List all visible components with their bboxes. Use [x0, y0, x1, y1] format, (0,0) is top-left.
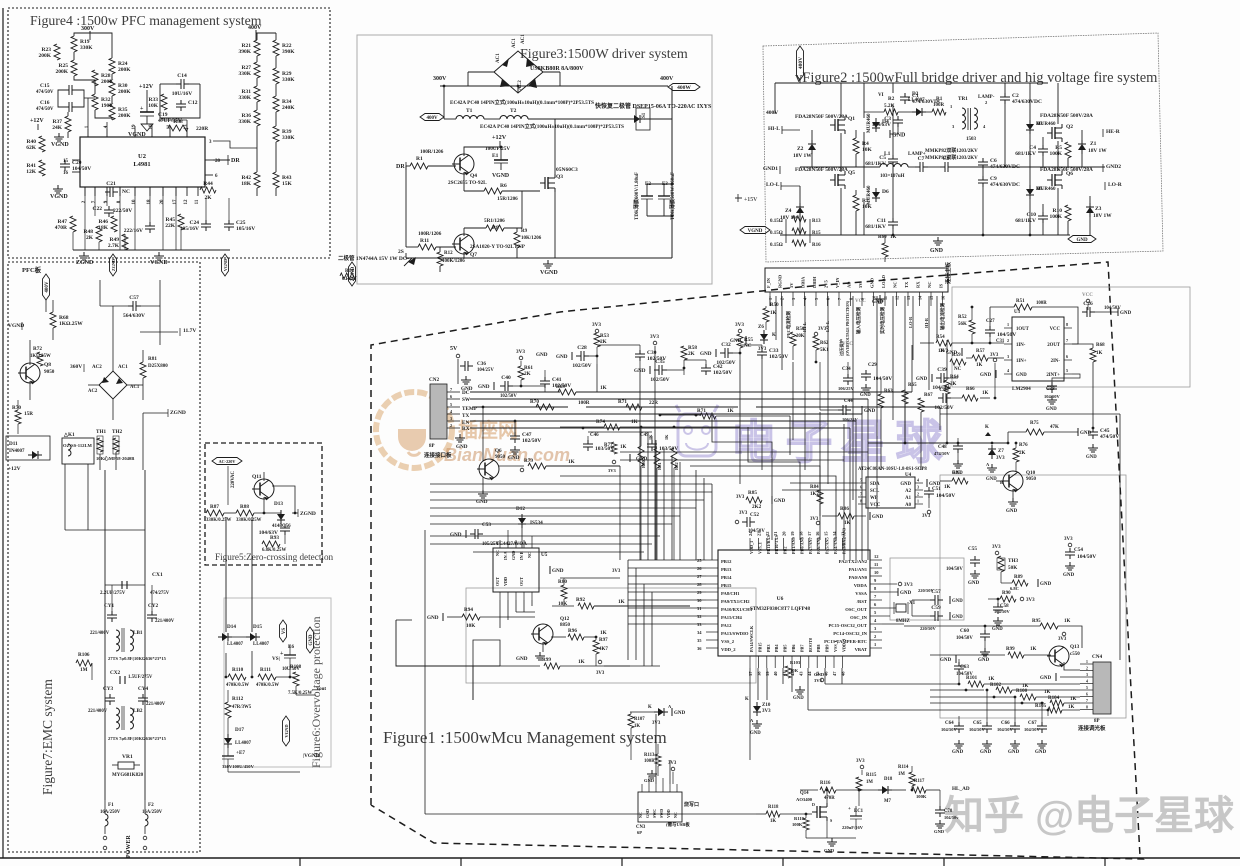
wire link verticals — [225, 517, 227, 632]
diode D5 — [1029, 185, 1031, 189]
Figure6 boundary box — [224, 598, 331, 767]
bottom ruler tick 2 — [460, 858, 462, 866]
svg-text:18V 1W: 18V 1W — [793, 153, 812, 159]
svg-text:LB2: LB2 — [133, 708, 143, 714]
svg-text:LL4007: LL4007 — [227, 642, 244, 647]
zener Z3 — [1089, 203, 1091, 207]
svg-text:18V 1W: 18V 1W — [1093, 213, 1112, 219]
svg-text:3: 3 — [917, 485, 919, 490]
svg-text:VDDA: VDDA — [854, 583, 868, 588]
wire bottom rail fig2 — [780, 234, 1070, 236]
net 3V3 vdda — [898, 582, 902, 586]
svg-text:5: 5 — [1066, 368, 1068, 373]
svg-text:24K: 24K — [52, 125, 63, 131]
svg-text:R57: R57 — [976, 349, 985, 354]
svg-text:28: 28 — [697, 582, 702, 587]
group box opamp — [952, 287, 1190, 387]
svg-text:VGND: VGND — [223, 259, 228, 271]
op-amp U2 L4981 box — [80, 137, 205, 187]
Figure2 boundary box — [763, 33, 1163, 262]
wire to fig1 a — [140, 331, 178, 333]
bus u6 col down — [659, 430, 661, 560]
svg-text:GND: GND — [916, 377, 928, 382]
svg-text:PA1/AN1: PA1/AN1 — [849, 567, 868, 572]
svg-text:PB2: PB2 — [783, 547, 788, 554]
svg-text:1K2: 1K2 — [810, 492, 819, 497]
svg-text:MUR460: MUR460 — [867, 185, 872, 205]
svg-text:DBIH: DBIH — [812, 276, 817, 288]
capacitor C1 — [904, 93, 906, 97]
svg-text:330K/0.25W: 330K/0.25W — [236, 518, 262, 523]
resistor R73 — [695, 414, 698, 417]
transistor Q6 — [482, 407, 484, 461]
svg-text:681/1KV: 681/1KV — [1015, 218, 1036, 224]
svg-text:R76: R76 — [1019, 443, 1028, 448]
capacitor C14 — [176, 83, 181, 85]
svg-text:Q14: Q14 — [800, 791, 809, 796]
resistor R49 — [122, 234, 128, 250]
svg-text:Z10: Z10 — [762, 703, 771, 708]
svg-text:TR1: TR1 — [958, 96, 968, 102]
resistor R37 — [65, 116, 71, 132]
svg-text:18: 18 — [147, 199, 152, 205]
svg-text:Z6: Z6 — [758, 325, 764, 330]
svg-text:8P: 8P — [1094, 719, 1100, 724]
svg-text:10K心MF58-2040B: 10K心MF58-2040B — [96, 455, 134, 462]
svg-text:22: 22 — [765, 531, 770, 536]
capacitor C8 — [940, 166, 945, 168]
svg-text:10K/1206: 10K/1206 — [521, 236, 542, 241]
svg-text:GND: GND — [864, 409, 876, 414]
svg-text:PB12: PB12 — [721, 559, 732, 564]
capacitor C11 — [892, 218, 894, 222]
svg-text:13: 13 — [906, 296, 911, 300]
resistor R82v — [671, 448, 677, 468]
svg-text:R52: R52 — [958, 315, 967, 320]
svg-text:220uF/16V: 220uF/16V — [842, 825, 864, 830]
wire U4 sda scl — [790, 482, 858, 484]
svg-text:VGND: VGND — [492, 173, 509, 179]
svg-text:GND: GND — [636, 457, 648, 462]
svg-text:330K: 330K — [282, 135, 295, 141]
svg-text:GND: GND — [1006, 509, 1018, 514]
svg-text:CY1: CY1 — [104, 603, 114, 609]
choke LB2 — [116, 708, 120, 729]
svg-text:1K: 1K — [1096, 351, 1103, 356]
wire u5-left L — [396, 620, 500, 666]
svg-text:7: 7 — [1086, 699, 1088, 703]
svg-text:D18: D18 — [884, 777, 893, 782]
svg-text:RX: RX — [462, 426, 470, 432]
svg-text:R102: R102 — [990, 683, 1002, 688]
svg-text:1K: 1K — [988, 677, 995, 682]
svg-text:1K: 1K — [664, 434, 669, 440]
svg-text:470R: 470R — [55, 225, 68, 231]
capacitor C9 — [982, 176, 984, 180]
svg-text:AC1: AC1 — [512, 38, 517, 48]
resistor R30 — [109, 80, 115, 96]
svg-text:R87: R87 — [210, 504, 219, 510]
svg-text:2: 2 — [1086, 667, 1088, 671]
svg-text:GND: GND — [934, 829, 945, 834]
svg-text:R71: R71 — [618, 399, 627, 405]
svg-text:AC2: AC2 — [88, 389, 98, 394]
transistor Q7 — [454, 234, 474, 254]
svg-text:C43: C43 — [939, 387, 949, 393]
svg-text:R13: R13 — [812, 219, 821, 224]
capacitor C-fig5 — [284, 524, 286, 528]
svg-text:R59: R59 — [952, 353, 961, 358]
svg-text:1K: 1K — [600, 630, 607, 636]
svg-text:MMKP82双联1203/2KV: MMKP82双联1203/2KV — [925, 154, 978, 161]
svg-text:E1: E1 — [492, 153, 499, 159]
capacitor C40 cluster — [493, 382, 495, 390]
svg-text:3V3: 3V3 — [818, 327, 827, 332]
resistor R24 — [109, 58, 115, 74]
svg-text:2IN-: 2IN- — [1051, 359, 1061, 364]
svg-text:D12: D12 — [516, 506, 525, 512]
svg-text:2K2: 2K2 — [752, 504, 762, 510]
capacitor C57 — [128, 305, 133, 307]
net VGND pill right — [740, 227, 770, 234]
wire osc — [882, 607, 920, 609]
svg-text:VSS_1: VSS_1 — [757, 542, 762, 554]
junction dots rows — [659, 414, 662, 417]
diode D-fast — [630, 118, 634, 120]
svg-text:3V3: 3V3 — [668, 761, 677, 766]
svg-text:5V: 5V — [858, 282, 863, 288]
resistor R19 — [71, 36, 77, 52]
svg-text:1503: 1503 — [966, 137, 977, 142]
bridge diode b — [526, 58, 535, 67]
svg-text:PC15-OSC32_OUT: PC15-OSC32_OUT — [828, 623, 867, 628]
svg-text:NC: NC — [673, 812, 678, 818]
svg-text:681/1KV: 681/1KV — [865, 224, 886, 230]
svg-text:8: 8 — [1086, 706, 1088, 710]
svg-text:NC: NC — [927, 282, 932, 289]
bus drop extend c — [815, 364, 817, 410]
svg-text:474/50V: 474/50V — [36, 107, 54, 112]
svg-text:10: 10 — [132, 199, 137, 205]
svg-text:102/50V: 102/50V — [716, 360, 735, 366]
svg-text:10K: 10K — [466, 623, 475, 629]
resistor R33 — [161, 94, 167, 110]
svg-text:HI-R: HI-R — [924, 317, 929, 328]
svg-text:K: K — [772, 333, 776, 338]
svg-text:SWC: SWC — [652, 809, 657, 818]
resistor R29 — [273, 68, 279, 84]
net gnd vssa — [897, 588, 899, 596]
wire right bridge — [1004, 83, 1006, 93]
svg-text:NC: NC — [495, 550, 500, 556]
svg-text:C40: C40 — [501, 375, 511, 381]
svg-text:R114: R114 — [898, 765, 909, 770]
svg-text:30: 30 — [697, 598, 702, 603]
svg-text:PB5: PB5 — [783, 645, 788, 652]
main-board pin stubs — [769, 292, 771, 306]
svg-text:1K: 1K — [1064, 619, 1071, 624]
resistor R96 — [551, 636, 566, 638]
capacitor C59 — [930, 615, 935, 617]
wire fig7 mid — [29, 381, 31, 400]
svg-text:R94: R94 — [464, 607, 473, 613]
resistor R4 — [853, 138, 859, 154]
svg-text:C7: C7 — [918, 156, 925, 162]
svg-text:OSC_IN: OSC_IN — [850, 615, 868, 620]
svg-text:GND: GND — [1046, 407, 1057, 412]
svg-text:100K: 100K — [1049, 151, 1062, 157]
svg-text:200K: 200K — [118, 89, 131, 95]
resistor R68 — [50, 312, 56, 328]
svg-text:100K: 100K — [792, 822, 803, 827]
svg-text:1M: 1M — [80, 667, 88, 673]
svg-text:PB14: PB14 — [721, 575, 732, 580]
svg-text:2K: 2K — [204, 195, 212, 201]
wire DR-Q4 — [428, 165, 456, 167]
net +15V right — [735, 197, 742, 199]
svg-text:PA7/AN7: PA7/AN7 — [808, 537, 813, 554]
svg-text:3V3: 3V3 — [596, 671, 605, 676]
svg-text:3: 3 — [1086, 673, 1088, 677]
svg-text:PA10/RX1/CH3: PA10/RX1/CH3 — [721, 607, 753, 612]
svg-text:GND: GND — [860, 393, 871, 398]
svg-text:DC: DC — [462, 390, 470, 396]
resistor R44 — [200, 187, 216, 193]
wire filter verticals — [104, 585, 106, 800]
svg-text:3V3: 3V3 — [608, 468, 616, 473]
svg-text:GND: GND — [478, 384, 490, 390]
svg-text:E2: E2 — [645, 182, 651, 187]
svg-text:R1: R1 — [416, 156, 423, 162]
svg-text:K: K — [648, 705, 652, 710]
svg-text:1: 1 — [768, 298, 773, 300]
resistor R47 — [70, 216, 76, 232]
svg-text:MUR460: MUR460 — [1036, 187, 1056, 192]
svg-text:1K: 1K — [618, 599, 625, 605]
svg-text:102/50V: 102/50V — [934, 405, 953, 411]
svg-text:3V3: 3V3 — [1058, 637, 1067, 642]
capacitor C41 cluster — [544, 377, 546, 381]
resistor R79 — [499, 465, 524, 467]
resistor R42 — [254, 172, 260, 188]
svg-text:330K: 330K — [80, 45, 93, 51]
svg-text:PFC板: PFC板 — [22, 265, 42, 274]
svg-text:R106: R106 — [78, 652, 90, 658]
svg-text:6: 6 — [1066, 354, 1068, 359]
capacitor C26 — [1082, 311, 1087, 313]
svg-text:1K: 1K — [631, 419, 638, 425]
svg-text:3V3: 3V3 — [1026, 598, 1035, 603]
resistor R40 — [39, 136, 45, 152]
mosfet Q1 — [830, 124, 835, 126]
svg-text:Q8: Q8 — [44, 362, 51, 368]
svg-text:35: 35 — [697, 638, 702, 643]
svg-text:Z1: Z1 — [1090, 141, 1097, 147]
svg-text:D13: D13 — [274, 501, 283, 507]
svg-text:102/50V: 102/50V — [522, 438, 541, 444]
U2 right pins — [205, 159, 213, 161]
svg-text:1K: 1K — [578, 659, 585, 665]
svg-text:PA9/TX1/CH2: PA9/TX1/CH2 — [721, 599, 750, 604]
capacitor C47 — [514, 421, 516, 432]
mcu U6 STM32 — [718, 550, 870, 656]
resistor R100 — [930, 696, 1014, 698]
net ZGND bottom — [83, 252, 85, 256]
svg-text:GND: GND — [536, 352, 548, 358]
svg-text:OSC_OUT: OSC_OUT — [845, 607, 867, 612]
svg-text:快恢复二极管 DSEP15-06A TO-220AC IXY: 快恢复二极管 DSEP15-06A TO-220AC IXYS — [594, 102, 712, 110]
resistor R99b — [500, 665, 540, 667]
svg-text:3V3: 3V3 — [810, 517, 819, 522]
svg-text:1OUT: 1OUT — [1016, 327, 1030, 332]
svg-text:GND: GND — [552, 568, 564, 574]
capacitor E7 — [222, 755, 234, 757]
capacitor C23 — [149, 222, 151, 226]
net VGND bottom fig3 — [547, 260, 549, 264]
svg-text:3: 3 — [450, 416, 452, 421]
svg-text:+12V: +12V — [139, 83, 154, 90]
svg-text:Figure5:Zero-crossing detectio: Figure5:Zero-crossing detection — [215, 552, 334, 562]
svg-text:400V: 400V — [248, 25, 262, 31]
svg-text:R93: R93 — [270, 535, 279, 541]
svg-text:37: 37 — [748, 671, 753, 676]
svg-text:R113: R113 — [644, 753, 655, 758]
svg-text:R103: R103 — [790, 660, 801, 665]
svg-text:GND: GND — [750, 731, 761, 736]
svg-text:12: 12 — [874, 554, 879, 559]
Figure4 boundary box — [8, 8, 330, 258]
svg-text:EC42A PC40 14PIN立式(100uH±10uH): EC42A PC40 14PIN立式(100uH±10uH)(0.1mm*100… — [480, 122, 624, 130]
wire right chains — [256, 32, 276, 34]
svg-text:300V: 300V — [433, 76, 447, 82]
svg-text:IN A: IN A — [503, 552, 508, 561]
svg-text:470K/0.5W: 470K/0.5W — [256, 683, 279, 688]
capacitor C22 — [108, 206, 110, 210]
Figure5 boundary box — [205, 443, 322, 565]
svg-text:3V3: 3V3 — [996, 456, 1005, 461]
svg-text:40: 40 — [773, 671, 778, 676]
wire SW line — [470, 398, 868, 400]
svg-text:LL4007: LL4007 — [235, 741, 252, 746]
svg-text:C31: C31 — [996, 339, 1005, 344]
wire transformer line — [444, 118, 456, 120]
svg-text:LL4007: LL4007 — [253, 642, 270, 647]
svg-text:R81: R81 — [148, 356, 157, 362]
svg-text:GND: GND — [980, 750, 992, 755]
bottom ruler tick 5 — [943, 858, 945, 866]
svg-text:M7: M7 — [884, 799, 892, 804]
svg-text:VSSA: VSSA — [855, 591, 867, 596]
svg-text:Figure3:1500W driver system: Figure3:1500W driver system — [520, 47, 688, 62]
svg-text:21: 21 — [773, 531, 778, 536]
svg-text:6: 6 — [860, 485, 862, 490]
svg-text:240K: 240K — [282, 105, 295, 111]
svg-text:D17: D17 — [235, 727, 244, 733]
svg-text:15R/1206: 15R/1206 — [497, 196, 518, 202]
svg-text:GND: GND — [870, 277, 875, 288]
resistor R74 — [582, 427, 585, 430]
svg-text:R112: R112 — [232, 696, 244, 702]
svg-text:18K: 18K — [241, 181, 252, 187]
wire C15 loop — [58, 90, 64, 107]
svg-text:连接调光板: 连接调光板 — [1078, 724, 1106, 732]
svg-text:474/50V: 474/50V — [36, 90, 54, 95]
svg-text:3V3: 3V3 — [922, 514, 931, 519]
svg-text:(OVERVOLTAGE PROTECTION): (OVERVOLTAGE PROTECTION) — [846, 300, 850, 356]
mosfet Q5 — [830, 179, 835, 181]
svg-text:220R: 220R — [196, 126, 209, 132]
svg-text:32: 32 — [697, 614, 702, 619]
svg-text:IN4007: IN4007 — [9, 449, 25, 454]
svg-text:400V: 400V — [766, 110, 778, 116]
svg-text:ZGND: ZGND — [300, 511, 316, 517]
svg-text:STM32F030C8T7 LQFP48: STM32F030C8T7 LQFP48 — [750, 606, 810, 612]
wire chain to U2 — [213, 141, 257, 148]
svg-text:C35: C35 — [655, 359, 665, 365]
svg-text:3V3: 3V3 — [990, 353, 999, 358]
net 400V pill fig2 — [797, 46, 804, 80]
svg-text:47K: 47K — [1050, 425, 1059, 430]
svg-text:VDD_1: VDD_1 — [749, 541, 754, 554]
svg-text:K: K — [745, 697, 749, 702]
svg-text:4: 4 — [1086, 680, 1088, 684]
svg-text:GND: GND — [516, 656, 528, 662]
svg-text:GND: GND — [456, 444, 468, 450]
svg-text:R67: R67 — [924, 393, 933, 398]
op-amp U3 LM2904 — [1012, 317, 1064, 381]
svg-text:11: 11 — [167, 124, 172, 129]
svg-text:2.7K: 2.7K — [108, 243, 120, 249]
svg-text:GND: GND — [793, 696, 804, 701]
svg-text:6.8K/0.25W: 6.8K/0.25W — [262, 548, 286, 553]
wire left ladder — [74, 33, 90, 36]
wire VR1 taps — [105, 764, 112, 766]
resistor R32 — [92, 94, 98, 110]
svg-text:2.2UF/275V: 2.2UF/275V — [100, 591, 126, 596]
bus u6-left horizontals — [628, 559, 706, 561]
svg-text:E6: E6 — [288, 644, 294, 650]
page bottom border line — [0, 857, 1240, 859]
wire y666 extend — [604, 665, 630, 667]
net GND bottom fig2 — [937, 237, 939, 241]
svg-text:FDA28N50F 500V/28A: FDA28N50F 500V/28A — [795, 114, 848, 120]
svg-text:C44: C44 — [844, 399, 853, 404]
svg-text:C39: C39 — [937, 367, 947, 373]
zener Z7 — [991, 445, 993, 449]
bus verticals mid — [639, 368, 641, 560]
bus right column — [1119, 414, 1121, 660]
svg-text:LO-R: LO-R — [1108, 182, 1123, 188]
bottom ruler tick 6 — [1104, 858, 1106, 866]
svg-text:27: 27 — [697, 574, 702, 579]
svg-text:2: 2 — [917, 492, 919, 497]
resistor R38 — [168, 125, 188, 131]
bridge fig7 — [99, 371, 127, 399]
svg-text:3: 3 — [1007, 354, 1009, 359]
svg-text:7: 7 — [450, 387, 452, 392]
svg-text:DR: DR — [396, 164, 405, 170]
svg-text:GND: GND — [940, 658, 952, 663]
svg-text:TC4427AVOA: TC4427AVOA — [496, 542, 527, 547]
net 400V pill left — [420, 114, 444, 121]
svg-text:10K: 10K — [790, 668, 799, 673]
svg-text:330K: 330K — [238, 119, 251, 125]
svg-text:D25X800: D25X800 — [148, 364, 168, 369]
svg-text:GND: GND — [986, 477, 997, 482]
svg-text:PB11/RX3: PB11/RX3 — [766, 535, 771, 554]
svg-text:25: 25 — [697, 558, 702, 563]
resistor R28 — [92, 70, 98, 86]
